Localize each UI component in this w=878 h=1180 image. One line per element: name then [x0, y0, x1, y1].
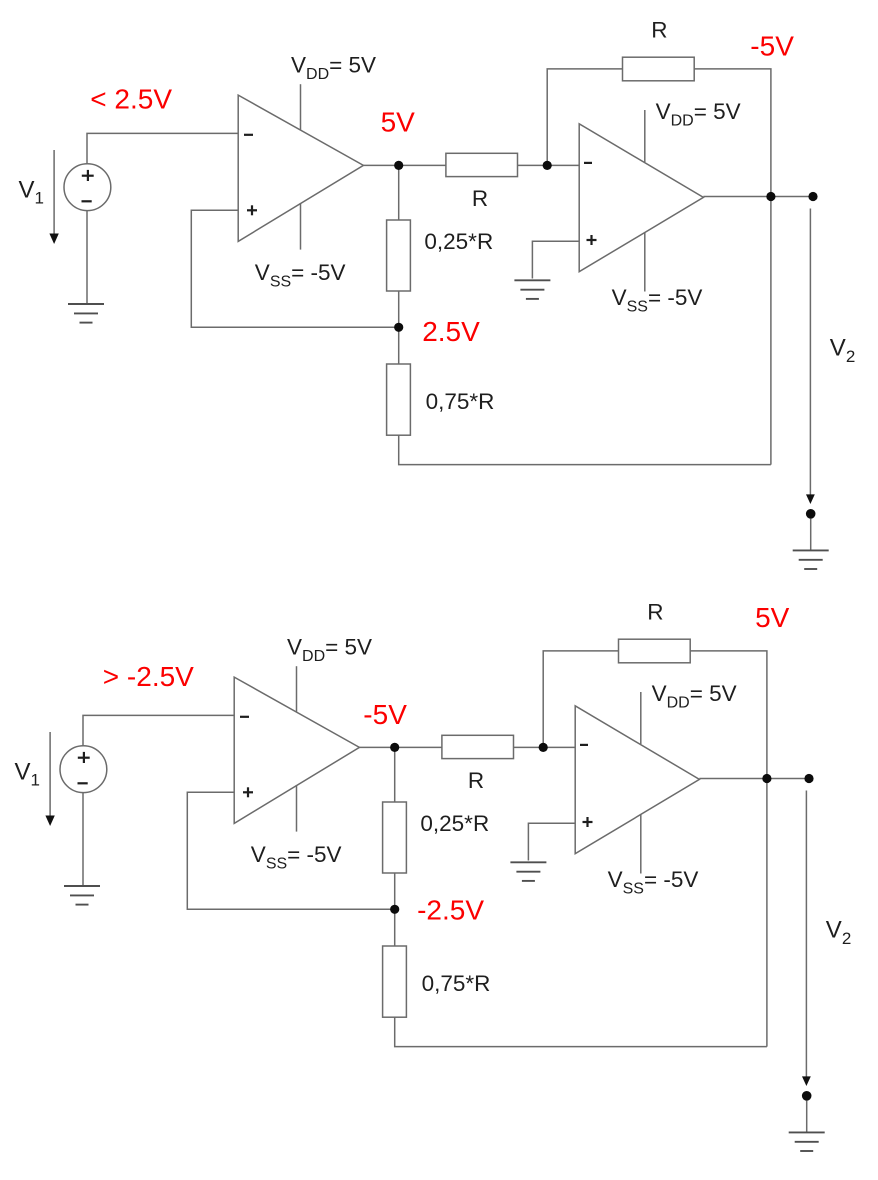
svg-text:-2.5V: -2.5V — [417, 894, 484, 925]
svg-text:5V: 5V — [381, 107, 416, 138]
svg-text:-5V: -5V — [750, 31, 794, 62]
svg-text:5V: 5V — [755, 602, 790, 633]
svg-text:> -2.5V: > -2.5V — [103, 661, 194, 692]
svg-text:2.5V: 2.5V — [422, 316, 480, 347]
svg-text:< 2.5V: < 2.5V — [90, 84, 172, 115]
svg-text:-5V: -5V — [363, 699, 407, 730]
